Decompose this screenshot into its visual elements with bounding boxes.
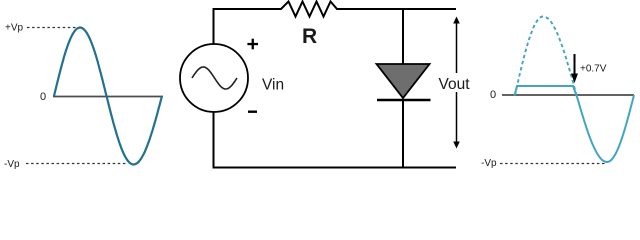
svg-text:0: 0 (490, 89, 496, 101)
svg-text:+Vp: +Vp (5, 23, 24, 34)
svg-text:R: R (302, 25, 317, 48)
svg-text:0: 0 (40, 91, 46, 103)
svg-text:Vin: Vin (262, 77, 284, 94)
svg-text:Vout: Vout (439, 76, 471, 93)
svg-text:-Vp: -Vp (481, 158, 497, 169)
svg-text:+0.7V: +0.7V (580, 64, 607, 75)
svg-text:-Vp: -Vp (4, 159, 20, 170)
